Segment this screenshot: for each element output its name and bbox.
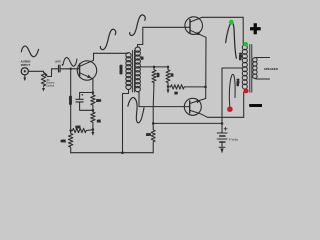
pot wiper arrow (46, 75, 47, 78)
svg-text:100: 100 (96, 99, 101, 103)
node center tap left (153, 66, 156, 69)
svg-text:1K: 1K (97, 119, 101, 123)
battery B1 9V (217, 132, 227, 134)
red dot T2 primary bottom (244, 88, 249, 93)
wire jack to pot (28, 70, 43, 72)
node B bias bottom (69, 129, 72, 132)
node Q1 emitter (92, 91, 95, 94)
svg-text:100: 100 (146, 133, 151, 137)
svg-text:DRIVER: DRIVER (120, 65, 123, 74)
transformer T1 primary winding (126, 53, 131, 58)
svg-text:1MFD: 1MFD (55, 61, 62, 64)
potentiometer R1 5K volume control (41, 71, 45, 87)
resistor R8 10 horizontal (168, 85, 206, 89)
transformer T2 secondary winding (253, 58, 257, 62)
T1 center tap wire (140, 66, 168, 68)
svg-text:470: 470 (156, 73, 159, 78)
svg-text:8 Ohm: 8 Ohm (239, 53, 241, 60)
node below R2 (92, 109, 95, 112)
bias line down from node A (70, 69, 72, 131)
transformer T2 primary winding (242, 45, 247, 50)
green dot signal top wire (229, 20, 234, 25)
svg-text:1K: 1K (170, 74, 173, 77)
svg-text:47K: 47K (61, 139, 66, 143)
svg-text:9 Volts: 9 Volts (229, 137, 239, 141)
svg-text:8 Ohm: 8 Ohm (236, 79, 238, 86)
node x153 rail and y123 wire (152, 122, 155, 125)
waveform at T2 primary bottom (229, 74, 235, 107)
red dot lower waveform (227, 106, 233, 112)
transformer T1 secondary winding (135, 47, 140, 52)
resistor R7 1K from center tap (166, 67, 170, 87)
junction dot bottom rail (121, 151, 124, 154)
bottom rail wire (71, 152, 154, 154)
resistor R3 below (91, 110, 95, 129)
plus sign large (249, 23, 262, 107)
transistor Q3 (184, 98, 201, 115)
svg-text:Control: Control (46, 85, 55, 88)
transformer T1 core (131, 51, 133, 93)
transformer T2 core (249, 45, 251, 93)
wire x153 rail (152, 107, 154, 128)
transistor Q1 (77, 61, 96, 80)
svg-text:SPEAKER: SPEAKER (264, 67, 279, 71)
node R7 bottom (167, 85, 170, 88)
T1 secondary top lead to Q2 base (138, 27, 190, 47)
wire T1 primary bottom return (123, 89, 129, 152)
T2 center tap wire (222, 68, 243, 133)
wire up to T2 primary bottom (244, 91, 245, 117)
T2 secondary leads (255, 57, 270, 59)
bypass capacitor C2 50MFD (80, 93, 93, 99)
input jack J1 (21, 68, 28, 75)
sine wave input signal icon (21, 46, 38, 57)
Q3 emitter (up to rail) (190, 99, 206, 104)
sine wave at Q2 base (130, 15, 146, 36)
resistor R4 horizontal (71, 128, 93, 132)
ground under jack (24, 75, 26, 78)
node A junction dot (69, 68, 72, 71)
node battery top (221, 122, 224, 125)
node C (92, 128, 95, 131)
resistor R6 470 from center tap (152, 67, 156, 107)
resistor R2 100 emitter (91, 93, 95, 111)
svg-text:INPUT: INPUT (21, 63, 30, 67)
Q3 collector (down to T2) (190, 110, 244, 117)
wiper wire up to cap (48, 69, 58, 77)
transistor Q2 (185, 17, 203, 35)
Q3 base wire (139, 106, 190, 108)
T1 secondary bottom lead (138, 92, 139, 107)
sine wave at T1 secondary bottom (128, 98, 144, 123)
svg-text:50MFD: 50MFD (69, 96, 73, 105)
resistor R5 down from node B (69, 131, 73, 153)
sine wave at T1 primary top (100, 29, 115, 49)
node center tap right (167, 66, 170, 69)
svg-text:10K: 10K (76, 125, 81, 129)
Q1 collector wire up to T1 (94, 53, 128, 60)
sine wave after cap (63, 58, 77, 67)
ground under battery (219, 146, 225, 148)
resistor R9 100 at x153 (151, 128, 155, 153)
ground under R7 (167, 87, 169, 90)
waveform at T2 primary top (226, 22, 237, 58)
battery feed wire y123 (153, 122, 222, 124)
green dot T2 primary top (244, 42, 249, 47)
wire cap to Q1 base (61, 68, 80, 70)
svg-text:10: 10 (175, 91, 178, 95)
plus label battery (224, 127, 227, 130)
ground under pot (42, 88, 45, 92)
minus sign large (249, 104, 262, 107)
Q2 collector wire top (202, 16, 243, 18)
T2 primary top feed (243, 17, 245, 45)
small dot at sine start (62, 64, 64, 66)
ground under node C (92, 130, 94, 133)
capacitor C1 (58, 65, 60, 72)
Q1 emitter wire down (92, 79, 94, 93)
node emitter rail (204, 86, 207, 89)
emitter rail (205, 37, 207, 98)
